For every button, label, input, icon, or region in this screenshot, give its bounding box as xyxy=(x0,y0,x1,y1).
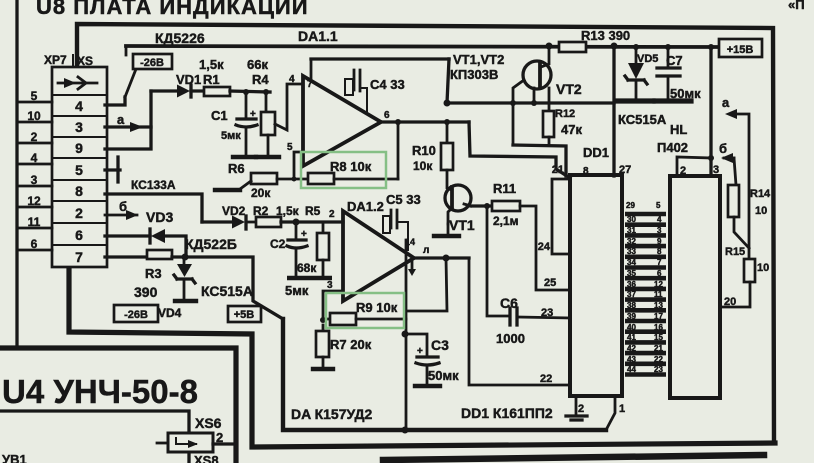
svg-text:1000: 1000 xyxy=(496,331,525,346)
svg-text:40: 40 xyxy=(627,323,636,332)
svg-text:VT2: VT2 xyxy=(556,81,582,97)
svg-text:DD1: DD1 xyxy=(583,145,609,160)
svg-text:R10: R10 xyxy=(412,143,436,158)
svg-text:44: 44 xyxy=(627,365,636,374)
svg-text:C4 33: C4 33 xyxy=(370,77,405,92)
svg-text:5: 5 xyxy=(31,89,38,103)
svg-text:16: 16 xyxy=(654,323,663,332)
svg-text:5мк: 5мк xyxy=(285,283,309,298)
svg-text:П402: П402 xyxy=(657,140,688,155)
svg-text:22: 22 xyxy=(540,373,552,385)
svg-text:23: 23 xyxy=(654,365,663,374)
svg-text:л: л xyxy=(423,245,429,256)
svg-text:47к: 47к xyxy=(561,122,582,137)
svg-text:R13 390: R13 390 xyxy=(581,28,630,43)
svg-text:4: 4 xyxy=(289,74,295,85)
svg-text:12: 12 xyxy=(654,280,663,289)
svg-text:3: 3 xyxy=(713,164,719,176)
svg-text:9: 9 xyxy=(75,140,83,156)
svg-text:-26В: -26В xyxy=(124,309,148,321)
svg-text:R15: R15 xyxy=(725,246,745,258)
svg-text:a: a xyxy=(117,112,125,127)
svg-text:35: 35 xyxy=(627,269,636,278)
svg-text:25: 25 xyxy=(544,277,556,289)
svg-text:32: 32 xyxy=(627,237,636,246)
svg-text:43: 43 xyxy=(627,355,636,364)
svg-text:R9 10к: R9 10к xyxy=(356,300,398,315)
svg-text:VT1,VT2: VT1,VT2 xyxy=(453,52,504,67)
svg-text:R5: R5 xyxy=(305,204,321,218)
svg-text:КС515А: КС515А xyxy=(618,112,667,127)
svg-text:10: 10 xyxy=(755,205,767,217)
svg-text:7: 7 xyxy=(75,249,83,265)
svg-text:R7 20к: R7 20к xyxy=(330,337,372,352)
svg-text:42: 42 xyxy=(627,344,636,353)
svg-text:XS8: XS8 xyxy=(194,453,219,463)
svg-text:68к: 68к xyxy=(297,261,317,275)
svg-text:R11: R11 xyxy=(493,181,516,196)
svg-text:10: 10 xyxy=(27,109,41,123)
svg-text:VD4: VD4 xyxy=(158,306,182,320)
svg-text:4: 4 xyxy=(657,215,662,224)
svg-text:2: 2 xyxy=(680,165,686,177)
svg-text:C2: C2 xyxy=(270,237,286,251)
svg-text:VD5: VD5 xyxy=(637,53,658,65)
svg-text:R14: R14 xyxy=(750,188,771,200)
svg-text:50мк: 50мк xyxy=(670,86,701,101)
svg-text:XS: XS xyxy=(77,54,93,68)
svg-text:C6: C6 xyxy=(500,295,518,311)
svg-text:2: 2 xyxy=(329,209,335,220)
svg-text:+15В: +15В xyxy=(727,44,754,56)
svg-text:17: 17 xyxy=(654,312,663,321)
svg-text:+: + xyxy=(301,229,307,240)
svg-text:3: 3 xyxy=(657,226,662,235)
svg-text:R3: R3 xyxy=(145,266,162,281)
svg-text:C7: C7 xyxy=(666,53,683,68)
svg-text:б: б xyxy=(719,141,727,156)
svg-text:390: 390 xyxy=(134,284,158,300)
svg-text:31: 31 xyxy=(627,226,636,235)
svg-text:38: 38 xyxy=(627,301,636,310)
svg-text:КД522Б: КД522Б xyxy=(185,236,237,252)
svg-text:VD3: VD3 xyxy=(146,209,173,225)
svg-text:8: 8 xyxy=(583,166,589,177)
svg-text:2: 2 xyxy=(75,205,83,221)
svg-text:R4: R4 xyxy=(252,72,269,87)
svg-text:U8 ПЛАТА ИНДИКАЦИИ: U8 ПЛАТА ИНДИКАЦИИ xyxy=(36,0,309,19)
svg-text:6: 6 xyxy=(31,237,38,251)
svg-text:КД5226: КД5226 xyxy=(155,30,205,46)
svg-text:5: 5 xyxy=(287,142,293,153)
svg-text:2,1м: 2,1м xyxy=(493,214,519,228)
svg-text:24: 24 xyxy=(538,241,551,253)
svg-text:DD1 К161ПП2: DD1 К161ПП2 xyxy=(461,405,553,421)
svg-text:R8 10к: R8 10к xyxy=(330,159,372,174)
svg-text:13: 13 xyxy=(654,301,663,310)
svg-text:КП303В: КП303В xyxy=(450,67,498,82)
svg-text:1,5к: 1,5к xyxy=(276,204,300,218)
svg-text:15: 15 xyxy=(654,333,663,342)
svg-text:-26В: -26В xyxy=(140,57,164,69)
svg-text:C3: C3 xyxy=(431,337,449,353)
svg-text:20к: 20к xyxy=(251,186,271,200)
svg-text:R12: R12 xyxy=(555,108,575,120)
svg-text:U4 УНЧ-50-8: U4 УНЧ-50-8 xyxy=(2,373,198,410)
svg-text:37: 37 xyxy=(627,290,636,299)
svg-text:10: 10 xyxy=(757,262,769,274)
svg-text:C1: C1 xyxy=(211,108,228,123)
svg-text:R2: R2 xyxy=(253,204,269,218)
svg-text:5: 5 xyxy=(656,201,661,210)
svg-text:1,5к: 1,5к xyxy=(199,57,224,72)
svg-text:4: 4 xyxy=(75,98,83,114)
svg-text:б: б xyxy=(119,199,127,214)
svg-text:30: 30 xyxy=(627,215,636,224)
svg-text:1: 1 xyxy=(619,403,625,415)
svg-text:R6: R6 xyxy=(228,161,245,176)
svg-text:DA1.2: DA1.2 xyxy=(347,199,384,214)
svg-text:+5В: +5В xyxy=(234,309,255,321)
svg-text:HL: HL xyxy=(670,122,687,137)
svg-text:2: 2 xyxy=(578,403,584,415)
svg-text:R1: R1 xyxy=(203,72,220,87)
svg-text:11: 11 xyxy=(654,290,663,299)
svg-text:6: 6 xyxy=(75,227,83,243)
svg-text:5мк: 5мк xyxy=(221,130,241,142)
svg-text:3: 3 xyxy=(327,280,333,291)
svg-text:C5 33: C5 33 xyxy=(386,192,421,207)
svg-text:8: 8 xyxy=(657,247,662,256)
svg-text:11: 11 xyxy=(28,215,41,229)
svg-text:9: 9 xyxy=(657,237,662,246)
svg-text:XP7: XP7 xyxy=(44,53,67,67)
svg-text:УВ1: УВ1 xyxy=(2,452,27,463)
svg-text:«П: «П xyxy=(788,0,805,12)
svg-text:66к: 66к xyxy=(247,57,268,72)
svg-text:10к: 10к xyxy=(413,159,433,173)
svg-text:50мк: 50мк xyxy=(428,368,459,383)
svg-text:6: 6 xyxy=(657,269,662,278)
svg-text:29: 29 xyxy=(626,201,635,210)
svg-text:3: 3 xyxy=(31,173,38,187)
svg-text:12: 12 xyxy=(27,194,41,208)
svg-text:+: + xyxy=(250,109,256,120)
svg-text:3: 3 xyxy=(75,119,83,135)
svg-text:8: 8 xyxy=(75,183,83,199)
svg-text:22: 22 xyxy=(654,355,663,364)
svg-text:20: 20 xyxy=(724,296,736,308)
svg-text:7: 7 xyxy=(307,79,313,90)
svg-text:39: 39 xyxy=(627,312,636,321)
svg-text:+: + xyxy=(417,346,423,357)
svg-text:41: 41 xyxy=(627,333,636,342)
svg-text:6: 6 xyxy=(384,110,390,121)
svg-text:4: 4 xyxy=(31,151,38,165)
svg-text:VT1: VT1 xyxy=(449,217,475,233)
svg-text:7: 7 xyxy=(657,258,662,267)
svg-text:VD2: VD2 xyxy=(222,204,246,218)
svg-text:23: 23 xyxy=(541,307,553,319)
svg-text:VD1: VD1 xyxy=(176,72,201,87)
svg-text:5: 5 xyxy=(75,162,83,178)
svg-text:a: a xyxy=(722,95,730,110)
svg-text:34: 34 xyxy=(627,258,636,267)
svg-text:КС133А: КС133А xyxy=(131,178,176,192)
svg-text:36: 36 xyxy=(627,280,636,289)
svg-text:DA1.1: DA1.1 xyxy=(298,28,338,44)
svg-text:КС515А: КС515А xyxy=(201,283,253,299)
svg-text:XS6: XS6 xyxy=(195,415,222,431)
svg-text:21: 21 xyxy=(654,344,663,353)
svg-text:DA К157УД2: DA К157УД2 xyxy=(291,406,372,422)
svg-text:2: 2 xyxy=(31,130,38,144)
svg-text:33: 33 xyxy=(627,247,636,256)
